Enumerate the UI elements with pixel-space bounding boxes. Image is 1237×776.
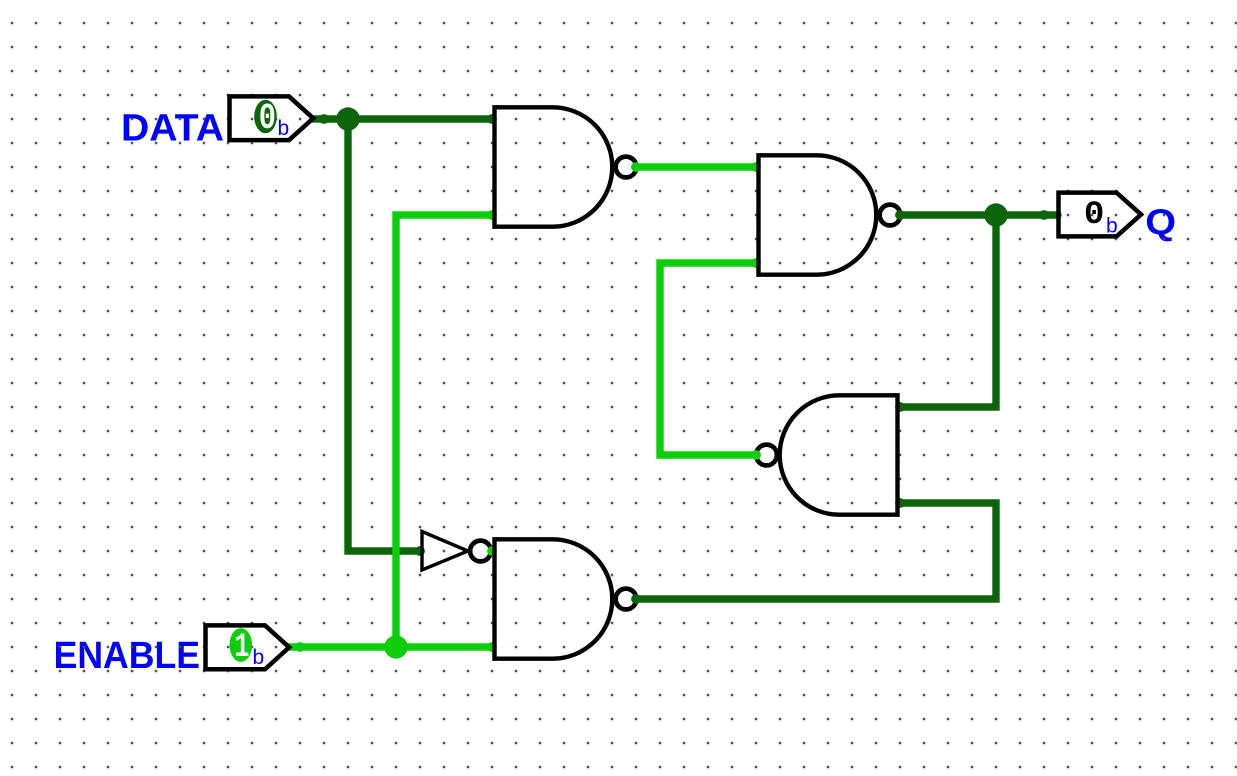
DATA value ellipse [254,100,277,134]
NAND gate U2 bubble [880,205,901,226]
inverter U5 triangle [422,532,468,571]
pin dot U2 inB [751,258,761,268]
wire DATA to gate U1 input A [313,115,492,122]
input tag ENABLE [206,625,290,669]
wire ENABLE to gate U4 input B [289,643,492,650]
wire U2 output to Q [899,211,1058,218]
pin dot U3 out [751,450,761,460]
svg-text:b: b [253,646,265,669]
ENABLE value ellipse [230,628,253,662]
junction node DATA split [336,107,359,130]
pin dot ENABLE out [295,642,305,652]
NAND gate U2 body [759,155,877,274]
pin dot U1 inA [487,114,497,124]
svg-text:1: 1 [234,628,249,667]
pin dot Q in [1039,210,1049,220]
pin dot U2 out [895,210,905,220]
svg-text:b: b [1106,214,1118,237]
pin dot inverter in [415,546,425,556]
output tag Q [1059,193,1142,237]
pin dot U4 out [631,594,641,604]
wire U3 output up to U2 input B [660,263,756,455]
svg-text:0: 0 [1084,196,1105,233]
wire U1 output to U2 input A [637,163,756,170]
NAND gate U3 body (mirrored, faces left) [780,395,898,514]
pin dot U4 inB [487,642,497,652]
wire Q feedback down to U3 input A [900,215,996,407]
wire DATA branch down to inverter [348,119,420,551]
pin dot U1 inB [487,210,497,220]
junction node Q split [984,203,1007,226]
NAND gate U3 bubble [756,445,777,466]
NAND gate U4 body [495,539,613,658]
wire U3 input B from U4 output [637,503,996,599]
input tag DATA [230,96,314,140]
wire ENABLE branch up to U1 input B [396,215,492,647]
pin dot U3 inA [895,402,905,412]
pin dot DATA out [319,114,329,124]
svg-text:b: b [278,117,290,140]
svg-text:0: 0 [259,98,276,139]
NAND gate U1 bubble [616,157,637,178]
NAND gate U4 bubble [616,589,637,610]
inverter U5 bubble [470,541,491,562]
junction node ENABLE split [384,635,407,658]
pin dot U4 inA [487,546,497,556]
pin dot U2 inA [751,162,761,172]
pin dot U1 out [631,162,641,172]
pin dot U3 inB [895,498,905,508]
NAND gate U1 body [495,107,613,226]
